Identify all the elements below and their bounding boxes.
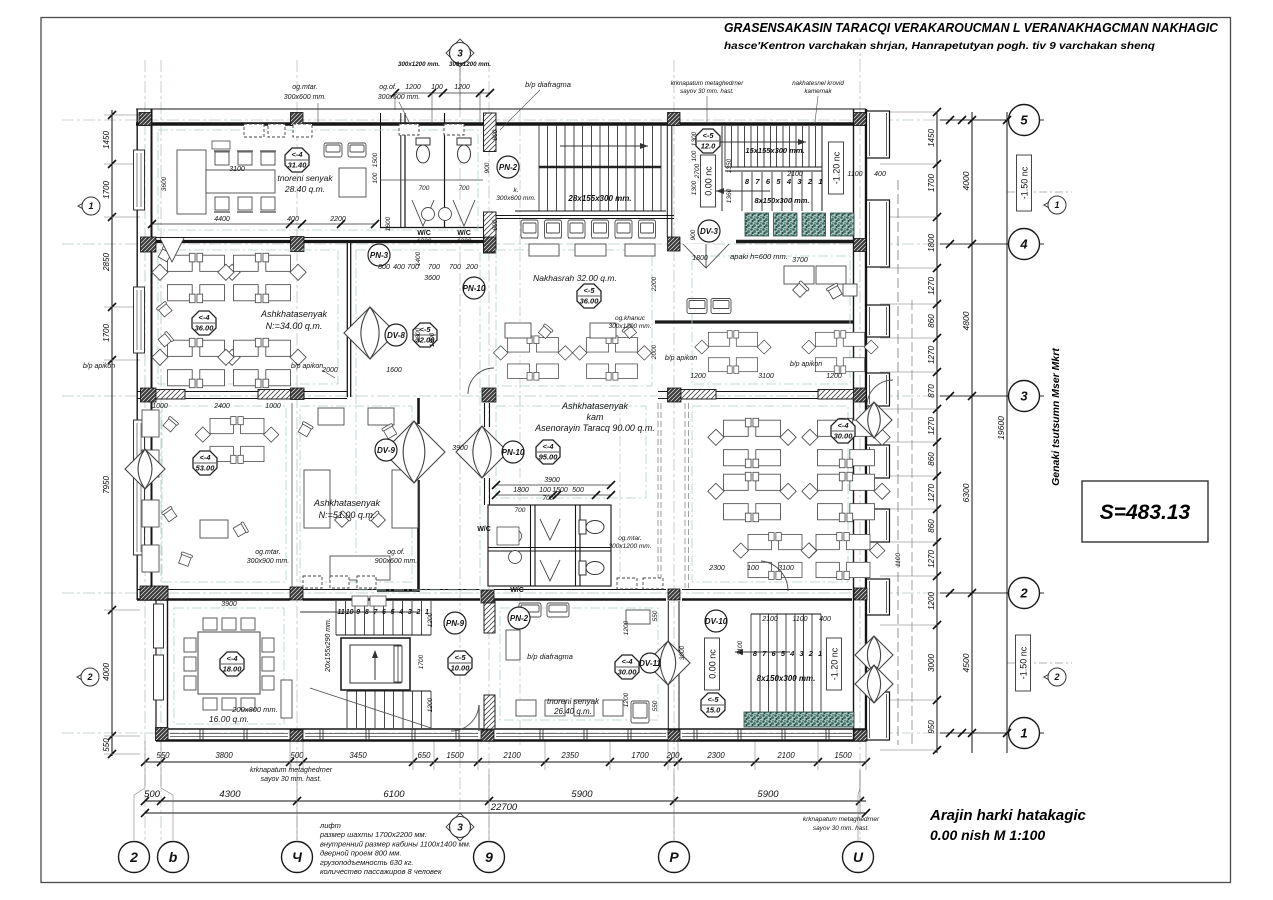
svg-text:3100: 3100 [758,373,774,380]
svg-text:900: 900 [484,162,491,173]
svg-text:<-4: <-4 [291,150,303,159]
svg-text:400: 400 [393,264,405,271]
svg-text:2100: 2100 [786,171,803,178]
svg-text:800: 800 [492,129,499,140]
svg-text:15.0: 15.0 [706,706,721,715]
svg-text:12.0: 12.0 [701,142,716,151]
svg-text:2: 2 [808,649,814,658]
building walls [136,108,866,110]
svg-text:15x155x300 mm.: 15x155x300 mm. [745,146,804,155]
svg-text:1360: 1360 [726,188,733,203]
svg-text:W/C: W/C [477,526,491,533]
svg-text:1200: 1200 [427,697,434,712]
svg-text:11: 11 [337,609,344,616]
svg-text:8x150x300 mm.: 8x150x300 mm. [754,196,809,205]
svg-text:2200: 2200 [651,276,658,292]
svg-text:2850: 2850 [102,253,111,272]
svg-text:лифт: лифт [319,821,341,830]
svg-text:S=483.13: S=483.13 [1100,501,1191,524]
svg-text:Genaki tsutsumn Mser Mkrt: Genaki tsutsumn Mser Mkrt [1050,348,1062,486]
svg-text:1800: 1800 [692,255,708,262]
svg-text:<-5: <-5 [583,286,595,295]
svg-text:4800: 4800 [961,311,971,330]
svg-text:hasce'Kentron varchakan shrjan: hasce'Kentron varchakan shrjan, Hanrapet… [724,40,1156,52]
svg-text:18.00: 18.00 [223,665,243,674]
svg-text:4: 4 [786,177,792,186]
svg-text:sayov 30 mm. hast.: sayov 30 mm. hast. [261,776,322,783]
svg-text:дверной проем 800 мм.: дверной проем 800 мм. [320,849,402,858]
svg-text:1270: 1270 [927,277,936,295]
svg-text:4500: 4500 [961,653,971,672]
svg-text:3100: 3100 [229,166,245,173]
svg-text:tnoreni senyak: tnoreni senyak [277,173,333,183]
svg-text:nakhatesnel krovid: nakhatesnel krovid [792,80,844,87]
svg-text:860: 860 [927,314,936,328]
svg-text:2: 2 [807,177,813,186]
svg-text:1: 1 [88,201,93,211]
svg-text:7950: 7950 [102,476,111,494]
svg-text:b/p diafragma: b/p diafragma [527,652,573,661]
svg-text:1200: 1200 [417,238,432,245]
svg-text:W/C: W/C [510,587,524,594]
svg-text:2: 2 [1019,586,1028,601]
svg-text:1200: 1200 [690,373,706,380]
svg-text:100: 100 [372,172,379,183]
area box S=483.13 [1082,481,1208,542]
svg-text:1700: 1700 [418,654,425,669]
svg-text:внутренний размер кабины 1100х: внутренний размер кабины 1100х1400 мм. [320,839,471,848]
svg-text:1300: 1300 [691,180,698,195]
svg-text:28.40 q.m.: 28.40 q.m. [284,184,325,194]
svg-text:100: 100 [691,150,698,161]
svg-text:1200: 1200 [457,238,472,245]
svg-text:1300: 1300 [691,131,698,146]
svg-text:30.00: 30.00 [618,668,638,677]
svg-text:2700: 2700 [694,163,701,179]
axis grid lines [62,119,1007,121]
svg-text:b/p apikon: b/p apikon [83,363,115,370]
svg-text:100: 100 [747,565,759,572]
svg-text:2350: 2350 [560,751,579,760]
svg-text:krknapatum metaghedrner: krknapatum metaghedrner [250,767,333,774]
svg-text:1700: 1700 [927,174,936,192]
svg-text:3: 3 [457,823,463,834]
svg-text:2: 2 [129,849,138,865]
svg-text:22700: 22700 [490,802,518,813]
svg-text:9: 9 [356,609,360,616]
svg-text:300x1200 mm.: 300x1200 mm. [609,323,652,330]
svg-text:1700: 1700 [631,751,649,760]
svg-text:DV-3: DV-3 [700,227,718,236]
svg-text:3100: 3100 [778,565,794,572]
svg-text:100: 100 [539,487,551,494]
svg-text:<-4: <-4 [226,654,238,663]
svg-text:2000: 2000 [651,344,658,360]
svg-text:1800: 1800 [927,234,936,252]
svg-text:<-5: <-5 [702,131,714,140]
svg-text:3000: 3000 [679,645,686,660]
svg-text:3: 3 [408,609,412,616]
svg-text:og.mtar.: og.mtar. [618,535,642,542]
svg-text:1500: 1500 [372,152,379,167]
svg-text:3900: 3900 [221,601,237,608]
svg-text:200: 200 [465,264,478,271]
svg-text:W/C: W/C [417,230,431,237]
svg-text:1270: 1270 [927,484,936,502]
svg-text:2000: 2000 [321,367,338,374]
svg-text:3900: 3900 [452,445,468,452]
svg-text:1200: 1200 [405,84,421,91]
svg-text:2100: 2100 [761,616,778,623]
svg-text:sayov 30 mm. hast.: sayov 30 mm. hast. [813,825,870,832]
svg-text:1200: 1200 [927,592,936,610]
svg-text:og.mtar.: og.mtar. [292,84,317,91]
svg-text:1270: 1270 [927,550,936,568]
svg-text:PN-9: PN-9 [446,619,465,628]
svg-text:1500: 1500 [446,751,464,760]
svg-text:4400: 4400 [214,216,230,223]
svg-text:10: 10 [346,609,354,616]
svg-text:300x1200 mm.: 300x1200 mm. [398,61,440,68]
svg-text:1100: 1100 [792,616,807,623]
svg-text:1200: 1200 [427,612,434,627]
svg-text:5900: 5900 [757,789,779,800]
svg-text:PN-2: PN-2 [510,614,529,623]
svg-text:3600: 3600 [161,176,168,191]
svg-text:550: 550 [652,610,659,621]
svg-text:og.of.: og.of. [379,84,397,91]
svg-text:Nakhasrah 32.00 q.m.: Nakhasrah 32.00 q.m. [533,273,617,283]
svg-text:20x155x290 mm.: 20x155x290 mm. [325,618,332,673]
svg-text:700: 700 [419,185,430,192]
svg-text:28x155x300 mm.: 28x155x300 mm. [567,194,631,203]
svg-text:2100: 2100 [776,751,795,760]
svg-text:b/p apikon: b/p apikon [790,361,822,368]
svg-text:<-4: <-4 [198,313,210,322]
svg-text:900: 900 [690,229,697,240]
svg-text:36.00: 36.00 [195,324,215,333]
svg-text:8x150x300 mm.: 8x150x300 mm. [757,674,816,683]
svg-text:og.mtar.: og.mtar. [255,549,280,556]
svg-text:2100: 2100 [502,751,521,760]
svg-text:4300: 4300 [219,789,241,800]
svg-text:PN-3: PN-3 [370,251,389,260]
svg-text:1: 1 [1054,200,1059,210]
svg-text:53.00: 53.00 [196,464,216,473]
svg-text:b/p apikon: b/p apikon [665,355,697,362]
svg-text:700: 700 [449,264,461,271]
svg-text:4000: 4000 [102,663,111,681]
svg-text:PN-10: PN-10 [502,448,525,457]
svg-text:2200: 2200 [329,216,346,223]
svg-text:2400: 2400 [213,403,230,410]
svg-text:500: 500 [572,487,584,494]
svg-text:krknapatum metaghedrner: krknapatum metaghedrner [671,80,745,87]
svg-text:870: 870 [927,384,936,398]
svg-text:10.00: 10.00 [451,664,471,673]
svg-text:1: 1 [1020,726,1027,741]
svg-text:2300: 2300 [708,565,725,572]
svg-text:3: 3 [457,49,463,60]
svg-text:-1.20 nc: -1.20 nc [832,151,842,184]
svg-text:N:=34.00 q.m.: N:=34.00 q.m. [266,321,323,331]
svg-text:Ashkhatasenyak: Ashkhatasenyak [313,498,381,508]
svg-text:1350: 1350 [726,158,733,173]
svg-text:16.00 q.m.: 16.00 q.m. [209,714,249,724]
svg-text:3300: 3300 [415,327,422,342]
svg-text:DV-8: DV-8 [387,331,405,340]
svg-text:1600: 1600 [386,367,402,374]
svg-text:4: 4 [398,609,403,616]
svg-text:800: 800 [492,219,499,230]
svg-text:1700: 1700 [102,324,111,342]
svg-text:860: 860 [927,519,936,533]
stairs [538,125,540,211]
svg-text:b: b [169,849,178,865]
svg-text:36.00: 36.00 [580,297,600,306]
svg-text:apaki h=600 mm.: apaki h=600 mm. [730,252,788,261]
svg-text:950: 950 [927,720,936,734]
svg-text:<-4: <-4 [621,657,633,666]
svg-text:900x600 mm.: 900x600 mm. [375,558,417,565]
svg-text:Ч: Ч [292,849,303,865]
svg-text:og.khanuc: og.khanuc [615,315,646,322]
svg-text:3100: 3100 [737,640,744,655]
svg-text:100: 100 [431,84,443,91]
svg-text:800: 800 [378,264,390,271]
svg-text:550: 550 [652,700,659,711]
svg-text:N:=51.00 q.m.: N:=51.00 q.m. [319,510,376,520]
svg-text:700: 700 [428,264,440,271]
svg-text:30.00: 30.00 [834,432,854,441]
svg-text:<-4: <-4 [199,453,211,462]
svg-text:300x1200 mm.: 300x1200 mm. [609,543,652,550]
svg-text:PN-10: PN-10 [463,284,486,293]
svg-text:kam: kam [586,412,604,422]
svg-text:Ashkhatasenyak: Ashkhatasenyak [260,309,328,319]
svg-text:DV-10: DV-10 [705,617,728,626]
svg-text:4: 4 [789,649,795,658]
svg-text:PN-2: PN-2 [499,163,518,172]
svg-text:2: 2 [415,609,420,616]
svg-text:1270: 1270 [927,346,936,364]
svg-text:-1.50 nc: -1.50 nc [1019,646,1029,679]
svg-text:tnoreni senyak: tnoreni senyak [547,697,600,706]
svg-text:3000: 3000 [927,654,936,672]
svg-text:550: 550 [102,738,111,752]
svg-text:6100: 6100 [383,789,405,800]
svg-text:3450: 3450 [349,751,367,760]
svg-text:700: 700 [515,507,526,514]
svg-text:700: 700 [459,185,470,192]
svg-text:3900: 3900 [544,477,560,484]
svg-text:0.00 nc: 0.00 nc [704,166,714,196]
svg-text:k.: k. [513,187,518,194]
svg-text:1600: 1600 [385,216,392,231]
svg-text:860: 860 [927,452,936,466]
svg-text:<-4: <-4 [542,442,554,451]
svg-text:1400: 1400 [415,251,422,266]
svg-text:W/C: W/C [457,230,471,237]
svg-text:GRASENSAKASIN TARACQI VERAKARO: GRASENSAKASIN TARACQI VERAKAROUCMAN L VE… [724,20,1219,35]
svg-text:og.of.: og.of. [387,549,405,556]
furniture [177,150,206,214]
svg-text:P: P [669,849,679,865]
svg-text:размер шахты 1700х2200 мм.: размер шахты 1700х2200 мм. [319,830,427,839]
svg-text:грузоподъемность 630 кг.: грузоподъемность 630 кг. [320,858,414,867]
svg-text:300x600 mm.: 300x600 mm. [378,94,420,101]
svg-text:kamernak: kamernak [804,88,832,95]
svg-text:8: 8 [365,609,369,616]
svg-text:1200: 1200 [826,373,842,380]
svg-text:4: 4 [1019,237,1028,252]
svg-text:3: 3 [1020,389,1028,404]
svg-text:1450: 1450 [102,131,111,149]
svg-text:1270: 1270 [927,417,936,435]
structural columns [139,113,152,126]
svg-text:1200: 1200 [623,620,630,635]
svg-text:300x600 mm.: 300x600 mm. [496,195,536,202]
svg-text:1450: 1450 [927,129,936,147]
svg-text:400: 400 [819,616,831,623]
svg-text:sayov 30 mm. hast.: sayov 30 mm. hast. [680,88,734,95]
svg-text:0.00 nc: 0.00 nc [708,649,718,679]
svg-text:2300: 2300 [706,751,725,760]
svg-text:1: 1 [818,177,822,186]
svg-text:650: 650 [417,751,431,760]
svg-text:<-5: <-5 [707,695,719,704]
svg-text:5: 5 [1020,113,1028,128]
svg-text:5900: 5900 [571,789,593,800]
svg-text:-1.20 nc: -1.20 nc [830,647,840,680]
svg-text:количество пассажиров 8 челове: количество пассажиров 8 человек [320,867,442,876]
svg-text:1700: 1700 [102,181,111,199]
room stamps and door tags [285,148,309,172]
svg-text:26.40 q.m.: 26.40 q.m. [553,707,592,716]
svg-text:krknapatum metaghedrner: krknapatum metaghedrner [803,816,880,823]
svg-text:1200: 1200 [454,84,470,91]
svg-text:<-4: <-4 [837,421,849,430]
svg-text:200x800 mm.: 200x800 mm. [231,705,277,714]
svg-text:6: 6 [382,609,386,616]
svg-text:31.40: 31.40 [288,161,308,170]
svg-text:U: U [853,849,864,865]
svg-text:Asenorayin Taracq 90.00 q.m.: Asenorayin Taracq 90.00 q.m. [534,423,655,433]
svg-text:19600: 19600 [996,416,1006,440]
svg-text:300x600 mm.: 300x600 mm. [284,94,326,101]
svg-text:9: 9 [485,849,493,865]
svg-text:1000: 1000 [265,403,281,410]
svg-text:4000: 4000 [961,171,971,190]
svg-text:<-5: <-5 [454,653,466,662]
svg-text:1200: 1200 [623,692,630,707]
svg-text:3700: 3700 [792,257,808,264]
svg-text:3600: 3600 [424,275,440,282]
svg-text:Arajin harki hatakagic: Arajin harki hatakagic [929,807,1087,824]
svg-text:95.00: 95.00 [539,453,559,462]
svg-text:1000: 1000 [152,403,168,410]
svg-text:b/p apikon: b/p apikon [291,363,323,370]
svg-text:400: 400 [874,171,886,178]
svg-text:300x1200 mm.: 300x1200 mm. [449,61,491,68]
svg-text:300x900 mm.: 300x900 mm. [247,558,289,565]
svg-text:2: 2 [86,672,92,682]
planters [745,213,769,236]
svg-text:1800: 1800 [513,487,529,494]
svg-text:400: 400 [287,216,299,223]
svg-text:3800: 3800 [215,751,233,760]
svg-text:1100: 1100 [847,171,862,178]
svg-text:0.00 nish M 1:100: 0.00 nish M 1:100 [930,827,1045,843]
svg-text:1500: 1500 [834,751,852,760]
svg-text:DV-11: DV-11 [639,659,661,668]
svg-text:2: 2 [1053,672,1059,682]
svg-text:Ashkhatasenyak: Ashkhatasenyak [561,401,629,411]
svg-text:1: 1 [818,649,822,658]
svg-text:DV-9: DV-9 [377,446,395,455]
svg-text:1800: 1800 [429,332,436,347]
svg-text:b/p diafragma: b/p diafragma [525,80,571,89]
svg-text:-1.50 nc: -1.50 nc [1020,166,1030,199]
svg-text:1100: 1100 [895,553,902,567]
svg-text:5: 5 [391,609,395,616]
svg-text:6300: 6300 [961,483,971,502]
